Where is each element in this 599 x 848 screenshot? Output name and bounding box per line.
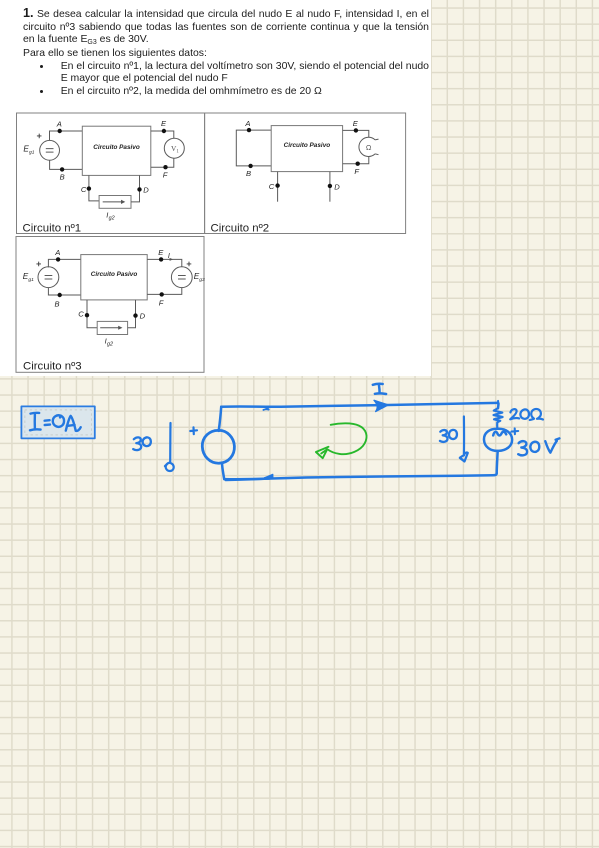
wire F bottom (c1)	[151, 158, 174, 167]
node F (c3)	[159, 292, 164, 307]
node C (c2)	[269, 182, 280, 191]
wire left source bottom lead	[222, 463, 224, 479]
polarity + (right source)	[511, 428, 518, 434]
node C (c3)	[78, 310, 89, 319]
wire C stub (c3)	[87, 300, 97, 328]
resistor 20ohm zigzag	[494, 408, 503, 428]
polarity + (left source)	[190, 427, 197, 434]
wire left source top lead	[219, 407, 222, 431]
arrowhead on bottom wire	[264, 474, 273, 478]
node B (c3)	[55, 293, 62, 309]
passive network box (c2)	[271, 126, 342, 172]
label Ig2 (c3)	[105, 336, 113, 347]
current source Ig2 box (c3)	[97, 321, 127, 334]
label Ig2 (c1)	[106, 211, 114, 222]
result box I=0A	[21, 406, 94, 438]
node A (c1)	[56, 120, 62, 134]
frame circuito 3	[16, 237, 204, 373]
label Eg1 (c1)	[23, 144, 34, 155]
node C (c1)	[81, 185, 91, 194]
passive network box (c3)	[81, 255, 147, 300]
voltage source Eg1 (c3)	[38, 267, 59, 288]
node D (c2)	[328, 182, 341, 191]
passive network box (c1)	[82, 126, 151, 175]
node E (c2)	[353, 119, 359, 133]
green loop arrow	[316, 423, 367, 458]
node F (c2)	[354, 162, 360, 176]
voltmeter V1 (c1)	[164, 138, 184, 158]
node D (c3)	[133, 312, 145, 321]
handwritten I=0A	[30, 413, 81, 431]
label 30 (right)	[440, 430, 457, 442]
wire C stub (c2)	[277, 172, 279, 202]
label 30 (left)	[133, 437, 151, 450]
wire bottom	[224, 473, 497, 479]
wire A-B short (c2)	[236, 130, 271, 166]
wire F bottom (c3)	[147, 288, 182, 295]
wire E top (c2)	[343, 130, 369, 137]
node D (c1)	[137, 186, 149, 195]
wire right corner down	[497, 401, 498, 408]
polarity + (c1)	[37, 134, 42, 139]
wire C stub (c1)	[89, 175, 99, 201]
label Eg1 (c3)	[23, 272, 34, 283]
arrow 30 (right)	[460, 417, 468, 462]
wire D stub (c1)	[131, 175, 140, 202]
wire B bottom (c3)	[48, 288, 80, 295]
arrow 30 (left)	[165, 423, 174, 471]
wire top	[221, 403, 497, 407]
arrowhead I (top wire)	[374, 400, 388, 411]
wire D stub (c2)	[329, 172, 331, 202]
voltage source Eg3 (c3)	[171, 267, 192, 288]
node E (c1)	[161, 119, 167, 133]
frame circuito 1	[17, 113, 205, 235]
node A (c2)	[244, 119, 251, 132]
node B (c1)	[60, 167, 65, 181]
current I arrow (c3)	[168, 253, 173, 261]
wire D stub (c3)	[128, 300, 136, 328]
wire A top (c1)	[50, 131, 83, 141]
node F (c1)	[163, 165, 168, 180]
wire E top (c3)	[147, 259, 182, 266]
wire right source bottom lead	[497, 451, 498, 473]
wire bottom left double-stroke	[226, 479, 270, 480]
wire A top (c3)	[48, 259, 80, 267]
voltage source Eg1 (c1)	[40, 140, 60, 160]
label 30 V	[518, 438, 559, 455]
label 20 ohm	[510, 409, 543, 420]
small arrow on top wire	[263, 406, 269, 410]
node A (c3)	[54, 248, 60, 262]
label I (top)	[373, 384, 386, 394]
source circle (left)	[202, 430, 234, 463]
node B (c2)	[246, 164, 253, 179]
source circle (right)	[484, 429, 512, 451]
polarity + (c3 right)	[187, 262, 192, 267]
polarity + (c3 left)	[36, 262, 41, 267]
wire E top (c1)	[151, 131, 174, 138]
current source Ig2 box (c1)	[99, 196, 131, 209]
ohmmeter (c2)	[359, 137, 379, 156]
node E (c3)	[158, 248, 164, 262]
frame circuito 2	[205, 113, 406, 235]
wire F bottom (c2)	[343, 157, 369, 164]
wire B bottom (c1)	[50, 160, 83, 169]
label Eg3 (c3)	[194, 272, 205, 283]
